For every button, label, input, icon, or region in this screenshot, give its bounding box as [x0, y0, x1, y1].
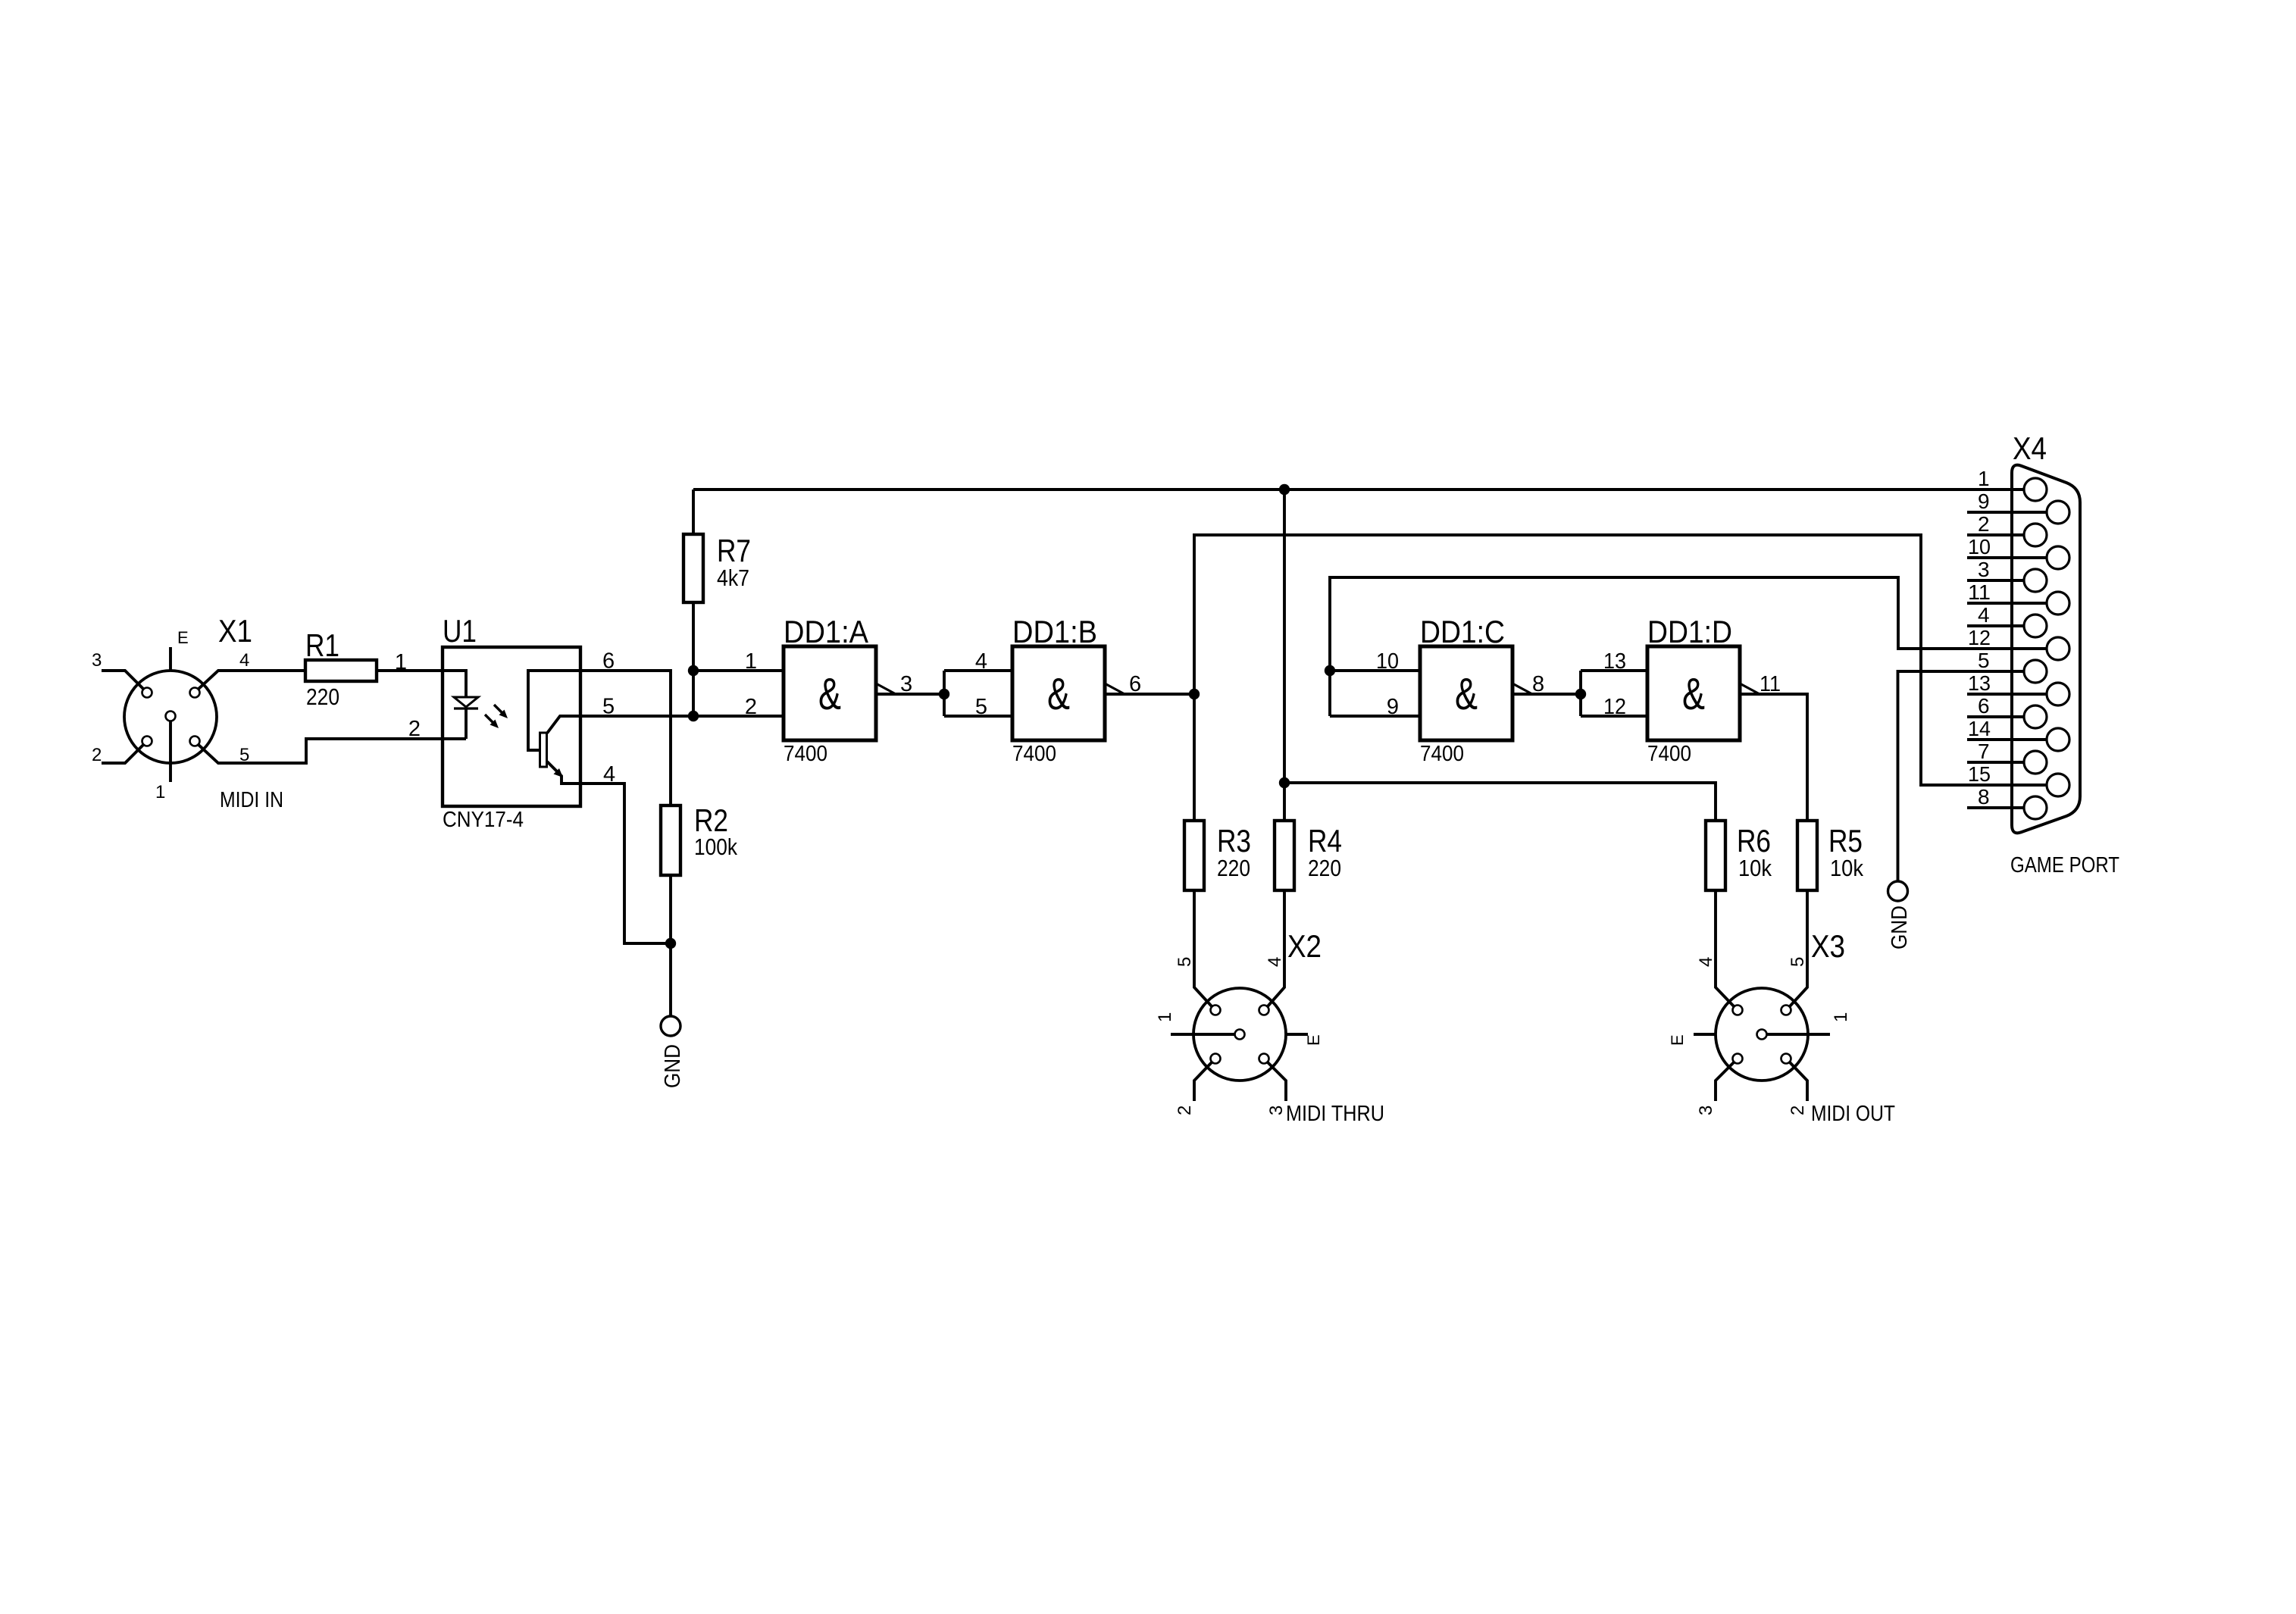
- svg-text:10k: 10k: [1738, 855, 1772, 881]
- wire to DD1:B pin4: [944, 669, 1012, 672]
- ground terminal GND left: [661, 1016, 680, 1036]
- X4 pin 10 circle: [2047, 546, 2069, 569]
- svg-text:9: 9: [1978, 490, 1990, 513]
- wire U1 pin4 down: [580, 784, 671, 943]
- X4 pin 8 circle: [2024, 796, 2047, 819]
- svg-text:X4: X4: [2013, 430, 2047, 466]
- svg-text:11: 11: [1760, 672, 1781, 696]
- U1 internal pin2 wire: [443, 737, 466, 740]
- svg-text:14: 14: [1968, 717, 1991, 740]
- resistor R6 body: [1706, 821, 1725, 890]
- svg-text:9: 9: [1387, 695, 1399, 719]
- resistor R2 body: [661, 805, 680, 875]
- svg-text:220: 220: [1308, 855, 1341, 881]
- svg-text:2: 2: [408, 717, 421, 741]
- wire R6 to X3 pin4: [1716, 890, 1734, 1006]
- junction dot C-D link: [1575, 689, 1586, 699]
- U1 internal anode wire: [443, 671, 466, 697]
- svg-text:R1: R1: [305, 627, 339, 663]
- U1 internal emitter wire: [547, 762, 580, 784]
- wire X3 pin1 stub: [1767, 1033, 1831, 1036]
- X4 pin 9 circle: [2047, 501, 2069, 524]
- svg-text:4: 4: [1265, 957, 1285, 967]
- wire feedback X4pin12 rail: [1330, 577, 2046, 716]
- wire X3 pin3 lead: [1716, 1062, 1734, 1101]
- wire node A tie: [692, 671, 695, 716]
- svg-text:X1: X1: [218, 613, 252, 649]
- X4 pin 2 circle: [2024, 524, 2047, 546]
- svg-text:U1: U1: [443, 613, 477, 649]
- svg-text:1: 1: [1155, 1012, 1175, 1022]
- junction dot node A lower: [688, 711, 699, 721]
- X2 pin hole 2-side: [1211, 1054, 1221, 1064]
- svg-text:GND: GND: [1888, 906, 1912, 949]
- svg-text:DD1:A: DD1:A: [784, 614, 868, 649]
- nand gate DD1:D box: [1647, 646, 1740, 740]
- wire X1 pin1 stub: [169, 721, 172, 783]
- DD1:C inversion slash: [1512, 683, 1532, 694]
- X2 pin hole 4: [1259, 1006, 1269, 1015]
- svg-text:12: 12: [1603, 695, 1626, 719]
- svg-text:1: 1: [1831, 1012, 1851, 1022]
- svg-text:1: 1: [1978, 467, 1990, 490]
- wire R2 bottom to GND node: [669, 875, 672, 943]
- X3 shield lead E: [1694, 1033, 1716, 1036]
- connector X2 DIN-5 MIDI THRU body: [1193, 988, 1286, 1081]
- svg-text:R5: R5: [1828, 823, 1863, 859]
- svg-text:3: 3: [1978, 558, 1990, 581]
- wire X1 pin5 lead to U1 pin2: [199, 739, 443, 763]
- U1 LED cathode bar: [454, 707, 478, 709]
- resistor R1 body: [305, 660, 377, 681]
- wire X4 pin 8 stub: [1967, 806, 2024, 809]
- wire X1 pin2 lead: [102, 745, 143, 763]
- junction dot B output node: [1189, 689, 1200, 699]
- svg-text:GND: GND: [661, 1044, 685, 1088]
- wire node A to DD1:A pin1: [693, 669, 784, 672]
- X4 pin 4 circle: [2024, 615, 2047, 637]
- wire to DD1:B pin5: [944, 715, 1012, 718]
- svg-text:4: 4: [1978, 603, 1990, 627]
- U1 emitter arrowhead: [554, 768, 564, 777]
- svg-text:E: E: [1668, 1034, 1687, 1046]
- svg-text:&: &: [818, 669, 841, 719]
- wire to DD1:C pin9: [1330, 715, 1420, 718]
- svg-text:DD1:D: DD1:D: [1647, 614, 1732, 649]
- svg-text:&: &: [1455, 669, 1478, 719]
- svg-text:5: 5: [239, 745, 249, 765]
- DD1:D inversion slash: [1740, 683, 1760, 694]
- svg-text:7400: 7400: [1420, 742, 1464, 766]
- svg-text:5: 5: [1978, 649, 1990, 672]
- wire X2 pin2 lead: [1194, 1062, 1212, 1101]
- svg-text:10: 10: [1968, 535, 1991, 558]
- wire rail down to R4: [1283, 490, 1286, 821]
- svg-text:R3: R3: [1217, 823, 1251, 859]
- connector X1 DIN-5 MIDI IN body: [124, 671, 217, 763]
- svg-text:6: 6: [1129, 672, 1141, 696]
- X3 pin hole 5: [1781, 1006, 1791, 1015]
- svg-text:1: 1: [155, 782, 165, 802]
- svg-text:8: 8: [1978, 785, 1990, 809]
- svg-text:13: 13: [1968, 671, 1991, 695]
- X4 pin 14 circle: [2047, 728, 2069, 751]
- nand gate DD1:C box: [1420, 646, 1512, 740]
- connector X4 DB15 body: [2012, 465, 2080, 834]
- X1 pin hole 4: [190, 688, 200, 698]
- svg-text:7400: 7400: [1647, 742, 1691, 766]
- resistor R5 body: [1797, 821, 1817, 890]
- wire R5 to X3 pin5: [1790, 890, 1807, 1006]
- svg-text:5: 5: [975, 695, 987, 719]
- svg-text:2: 2: [92, 745, 102, 765]
- svg-text:2: 2: [1175, 1106, 1195, 1115]
- wire branch to R6: [1284, 783, 1716, 821]
- X4 pin 12 circle: [2047, 637, 2069, 660]
- nand gate DD1:B box: [1012, 646, 1105, 740]
- X1 pin hole 5: [190, 737, 200, 746]
- svg-text:10: 10: [1376, 649, 1399, 674]
- wire X4 pin 13 stub: [1967, 693, 2047, 696]
- svg-text:GAME PORT: GAME PORT: [2010, 853, 2119, 877]
- svg-text:5: 5: [1175, 957, 1195, 967]
- X3 pin hole 4: [1733, 1006, 1743, 1015]
- wire DD1:A output: [876, 693, 944, 696]
- wire U1 pin6 to R2 top: [580, 671, 671, 805]
- X2 pin hole 3-side: [1259, 1054, 1269, 1064]
- svg-text:MIDI OUT: MIDI OUT: [1811, 1102, 1895, 1126]
- U1 LED triangle: [454, 697, 478, 707]
- wire to DD1:D pin12: [1581, 715, 1647, 718]
- svg-text:MIDI IN: MIDI IN: [220, 788, 283, 812]
- X4 pin 1 circle: [2024, 478, 2047, 501]
- wire X1 pin3 lead: [102, 671, 143, 689]
- wire X4 pin 2 stub: [1967, 533, 2024, 536]
- wire X4 pin 10 stub: [1967, 556, 2047, 559]
- X2 shield lead E: [1286, 1033, 1308, 1036]
- optocoupler U1 box: [443, 647, 580, 806]
- svg-text:3: 3: [1266, 1106, 1287, 1115]
- svg-text:3: 3: [92, 650, 102, 671]
- wire X4 pin 3 stub: [1967, 579, 2024, 582]
- svg-text:3: 3: [1696, 1106, 1716, 1115]
- junction dot rail-R4: [1279, 484, 1290, 495]
- wire to DD1:C pin10: [1330, 669, 1420, 672]
- wire DD1:D output to R5: [1740, 694, 1807, 821]
- svg-text:MIDI THRU: MIDI THRU: [1286, 1102, 1384, 1126]
- wire X4 pin 7 stub: [1967, 761, 2024, 764]
- wire X4 pin 4 stub: [1967, 624, 2024, 627]
- svg-text:7400: 7400: [1012, 742, 1056, 766]
- svg-text:15: 15: [1968, 762, 1991, 786]
- wire B-out down to R3: [1193, 694, 1196, 821]
- X3 pin hole 3-side: [1733, 1054, 1743, 1064]
- svg-text:4: 4: [975, 649, 987, 674]
- wire node A to DD1:A pin2: [693, 715, 784, 718]
- X1 pin hole 3-side: [142, 688, 152, 698]
- svg-text:220: 220: [306, 683, 339, 710]
- X1 pin hole 2-side: [142, 737, 152, 746]
- svg-text:220: 220: [1217, 855, 1250, 881]
- X4 pin 15 circle: [2047, 774, 2069, 796]
- wire X4 pin 6 stub: [1967, 715, 2024, 718]
- wire X2 pin3 lead: [1268, 1062, 1286, 1101]
- X4 pin 6 circle: [2024, 705, 2047, 728]
- svg-text:1: 1: [745, 649, 757, 674]
- junction dot C input tie: [1325, 665, 1335, 676]
- svg-text:CNY17-4: CNY17-4: [443, 808, 524, 832]
- X2 pin hole 5: [1211, 1006, 1221, 1015]
- svg-text:4: 4: [1696, 957, 1716, 967]
- wire X4 pin1 end: [1967, 488, 2024, 491]
- svg-text:1: 1: [395, 650, 407, 674]
- wire X3 pin2 lead: [1790, 1062, 1807, 1101]
- X4 pin 7 circle: [2024, 751, 2047, 774]
- DD1:B inversion slash: [1105, 683, 1125, 694]
- X1 shield lead E: [169, 647, 172, 671]
- svg-text:2: 2: [745, 695, 757, 719]
- wire top rail +5V: [693, 488, 2024, 491]
- svg-text:DD1:C: DD1:C: [1420, 614, 1505, 649]
- X4 pin 5 circle: [2024, 660, 2047, 683]
- svg-text:11: 11: [1968, 580, 1991, 604]
- wire R1 to U1 pin1: [377, 669, 443, 672]
- wire X4 pin 11 stub: [1967, 602, 2047, 605]
- wire R4 to X2 pin4: [1268, 890, 1284, 1006]
- svg-text:DD1:B: DD1:B: [1012, 614, 1097, 649]
- X1 center pin hole: [166, 712, 176, 721]
- wire to GND terminal left: [669, 943, 672, 1016]
- wire DD1:C output: [1512, 693, 1581, 696]
- wire A-B link vertical: [943, 671, 946, 716]
- wire X1 pin4 lead to R1: [199, 671, 305, 689]
- nand gate DD1:A box: [784, 646, 876, 740]
- svg-text:E: E: [1304, 1034, 1323, 1046]
- U1 internal cathode wire: [465, 708, 468, 739]
- X2 center pin hole: [1235, 1030, 1245, 1040]
- wire R7 bottom to node A: [692, 602, 695, 671]
- svg-text:R6: R6: [1737, 823, 1771, 859]
- svg-text:R7: R7: [717, 533, 751, 568]
- svg-text:E: E: [177, 628, 189, 647]
- svg-text:&: &: [1047, 669, 1070, 719]
- svg-text:12: 12: [1968, 626, 1991, 649]
- X3 center pin hole: [1757, 1030, 1767, 1040]
- DD1:A inversion slash: [876, 683, 896, 694]
- X4 pin 3 circle: [2024, 569, 2047, 592]
- resistor R3 body: [1184, 821, 1204, 890]
- resistor R4 body: [1275, 821, 1294, 890]
- X4 pin 13 circle: [2047, 683, 2069, 705]
- svg-text:&: &: [1682, 669, 1705, 719]
- wire X4 pin5 to GND: [1898, 671, 2025, 881]
- wire X4 pin 14 stub: [1967, 738, 2047, 741]
- svg-text:100k: 100k: [694, 834, 737, 860]
- U1 internal base wire: [528, 671, 580, 750]
- svg-text:R4: R4: [1308, 823, 1342, 859]
- junction dot A-B link: [939, 689, 949, 699]
- junction dot GND-left node: [665, 938, 676, 949]
- svg-text:5: 5: [1788, 957, 1808, 967]
- wire C-D link vertical: [1579, 671, 1582, 716]
- wire U1 pin5 to node A: [580, 715, 693, 718]
- U1 phototransistor base plate: [540, 733, 547, 767]
- wire DD1:B output: [1105, 693, 1194, 696]
- svg-text:13: 13: [1603, 649, 1626, 674]
- svg-text:6: 6: [1978, 694, 1990, 718]
- X4 pin 11 circle: [2047, 592, 2069, 615]
- svg-text:X2: X2: [1287, 928, 1322, 964]
- wire to DD1:D pin13: [1581, 669, 1647, 672]
- ground terminal GND right: [1888, 881, 1908, 901]
- U1 light arrow 2: [485, 715, 499, 728]
- svg-text:10k: 10k: [1830, 855, 1863, 881]
- wire X2 pin1 stub: [1171, 1033, 1235, 1036]
- X3 pin hole 2-side: [1781, 1054, 1791, 1064]
- junction dot node A upper: [688, 665, 699, 676]
- wire B-out up and across to X4 pin15: [1194, 535, 2047, 785]
- U1 internal collector wire: [547, 716, 580, 733]
- svg-text:2: 2: [1788, 1106, 1808, 1115]
- svg-text:4: 4: [239, 650, 249, 671]
- svg-text:7400: 7400: [784, 742, 827, 766]
- junction dot R4-R6 branch: [1279, 777, 1290, 788]
- wire top rail to R7: [692, 490, 695, 534]
- U1 light arrow 1: [494, 705, 508, 718]
- svg-text:3: 3: [900, 672, 912, 696]
- svg-text:8: 8: [1532, 672, 1544, 696]
- svg-text:7: 7: [1978, 740, 1990, 763]
- wire X4 pin 9 stub: [1967, 511, 2047, 514]
- svg-text:R2: R2: [694, 802, 728, 838]
- connector X3 DIN-5 MIDI OUT body: [1716, 988, 1808, 1081]
- svg-text:4k7: 4k7: [717, 565, 749, 591]
- svg-text:2: 2: [1978, 512, 1990, 536]
- svg-text:X3: X3: [1811, 928, 1845, 964]
- wire R3 to X2 pin5: [1194, 890, 1212, 1006]
- resistor R7 body: [683, 534, 703, 602]
